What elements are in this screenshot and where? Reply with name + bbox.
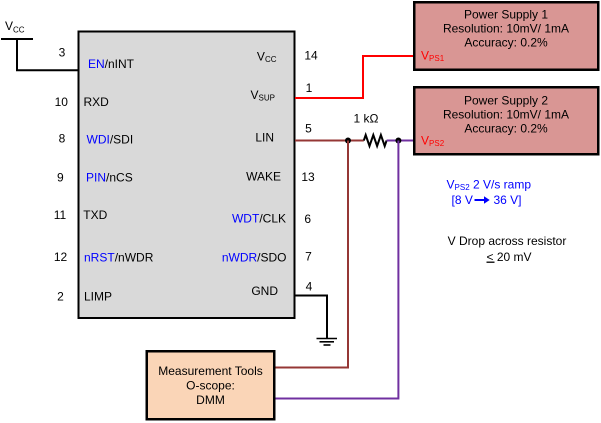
svg-text:VPS2 2 V/s ramp: VPS2 2 V/s ramp <box>447 177 532 191</box>
svg-text:14: 14 <box>304 49 318 63</box>
wire node B to measurement box (purple) <box>274 141 398 399</box>
svg-text:1: 1 <box>306 81 313 95</box>
junction node B <box>395 138 401 144</box>
svg-text:WDT/CLK: WDT/CLK <box>232 211 286 225</box>
svg-text:Measurement Tools: Measurement Tools <box>158 364 263 378</box>
svg-text:7: 7 <box>305 250 312 264</box>
svg-text:Accuracy: 0.2%: Accuracy: 0.2% <box>464 122 548 136</box>
wire VSUP to PS1 (red) <box>295 56 414 98</box>
svg-text:Power Supply 1: Power Supply 1 <box>464 7 548 21</box>
wire GND pin4 <box>295 296 327 339</box>
wire LIN to node A (dark red) <box>295 140 364 142</box>
svg-text:4: 4 <box>306 279 313 293</box>
svg-text:6: 6 <box>304 212 311 226</box>
svg-text:TXD: TXD <box>83 208 107 222</box>
svg-text:Accuracy: 0.2%: Accuracy: 0.2% <box>464 35 548 49</box>
svg-text:10: 10 <box>55 95 69 109</box>
svg-text:DMM: DMM <box>196 393 225 407</box>
svg-text:3: 3 <box>59 46 66 60</box>
svg-text:12: 12 <box>54 250 68 264</box>
Power Supply 2 box <box>414 87 598 154</box>
svg-text:WDI/SDI: WDI/SDI <box>87 133 134 147</box>
svg-text:LIN: LIN <box>255 130 274 144</box>
svg-text:8: 8 <box>59 132 66 146</box>
svg-text:1 kΩ: 1 kΩ <box>354 112 379 126</box>
arrow in ramp note <box>475 196 490 204</box>
svg-text:2: 2 <box>57 290 64 304</box>
svg-text:Power Supply 2: Power Supply 2 <box>464 93 548 107</box>
svg-text:36 V]: 36 V] <box>494 193 522 207</box>
svg-text:5: 5 <box>305 122 312 136</box>
svg-text:WAKE: WAKE <box>246 170 281 184</box>
svg-text:GND: GND <box>251 284 278 298</box>
svg-text:O-scope:: O-scope: <box>186 379 235 393</box>
junction node A <box>345 138 351 144</box>
IC U1 body <box>79 32 295 319</box>
resistor R1 1 kOhm <box>364 135 387 146</box>
wire resistor to PS2 (purple) <box>387 140 414 142</box>
Power Supply 1 box <box>414 2 598 70</box>
svg-text:9: 9 <box>57 171 64 185</box>
underline of less-equal <box>487 261 495 263</box>
svg-text:[8 V: [8 V <box>452 193 473 207</box>
svg-text:nRST/nWDR: nRST/nWDR <box>84 251 154 265</box>
node VCC supply symbol <box>1 19 33 39</box>
wire node A to measurement box (dark red) <box>274 141 348 368</box>
svg-text:RXD: RXD <box>84 95 110 109</box>
svg-text:VCC: VCC <box>5 19 25 35</box>
svg-text:EN/nINT: EN/nINT <box>88 57 135 71</box>
ground <box>317 339 338 346</box>
svg-text:11: 11 <box>54 208 67 222</box>
svg-text:Resolution: 10mV/ 1mA: Resolution: 10mV/ 1mA <box>443 22 569 36</box>
svg-text:V Drop across resistor: V Drop across resistor <box>448 234 567 248</box>
svg-text:13: 13 <box>301 170 315 184</box>
svg-text:nWDR/SDO: nWDR/SDO <box>222 250 287 264</box>
Measurement Tools box <box>147 351 275 419</box>
wire VCC to pin 3 <box>17 39 78 70</box>
svg-text:Resolution: 10mV/ 1mA: Resolution: 10mV/ 1mA <box>443 108 569 122</box>
svg-text:PIN/nCS: PIN/nCS <box>86 171 133 185</box>
svg-text:LIMP: LIMP <box>84 290 112 304</box>
